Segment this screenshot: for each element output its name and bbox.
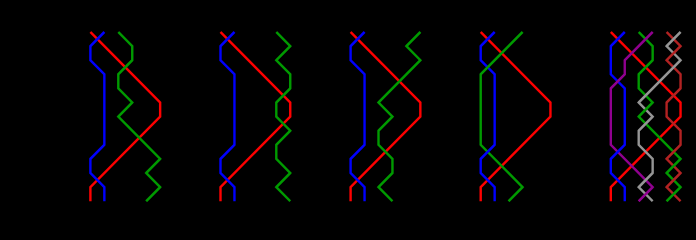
tangle 3 red wire [351,32,421,201]
tangle 5 green wire [639,32,681,201]
tangle 2 blue wire (down-left overpass segments) [221,32,235,159]
tangle 5 blue wire (down-left overpass segments) [611,32,625,159]
tangle 1 blue wire (down-left overpass segments) [90,32,104,159]
tangle 5 brown wire (down-left overpass segments) [667,46,681,187]
tangle 3 blue wire [351,32,365,201]
tangle 5 red wire [611,32,681,201]
tangle 3 blue wire (down-left overpass segments) [351,32,365,159]
tangle 2 green wire [276,32,290,201]
tangle 4 blue wire (down-left overpass segments) [481,32,495,159]
tangle 5 purple wire [611,32,653,201]
tangle 4 green wire [481,32,523,201]
tangle 4 green wire (down-left overpass segments) [481,32,523,201]
tangle 4 blue wire [481,32,495,201]
tangle 3 green wire [379,32,421,201]
tangle 4 red wire [481,32,551,201]
tangle 3 green wire (down-left overpass segments) [379,32,421,187]
tangle 5 brown wire [667,32,681,201]
tangle 5 purple wire (down-left overpass segments) [611,32,653,201]
tangle 1 red wire [90,32,160,201]
tangle 5 blue wire [611,32,625,201]
tangle 5 gray wire (down-left overpass segments) [639,32,681,187]
tangle 5 green wire (down-left overpass segments) [639,60,681,201]
tangle 2 blue wire [221,32,235,201]
tangle 1 blue wire [90,32,104,201]
tangle 1 green wire (down-left overpass segments) [118,60,160,201]
tangle 2 green wire (down-left overpass segments) [276,46,290,187]
tangle 2 red wire [221,32,291,201]
tangle 1 green wire [118,32,160,201]
tangle 5 gray wire [639,32,681,201]
